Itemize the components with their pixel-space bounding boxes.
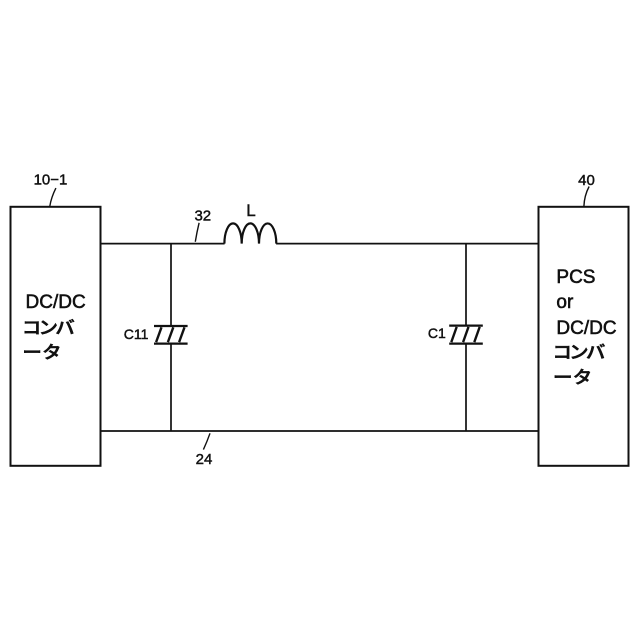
svg-text:L: L [246,201,255,220]
svg-text:C1: C1 [428,325,446,341]
svg-text:10−1: 10−1 [34,171,68,188]
svg-text:DC/DC: DC/DC [556,318,616,339]
svg-text:C11: C11 [124,326,149,342]
svg-text:32: 32 [194,208,211,225]
svg-text:or: or [556,292,574,313]
svg-text:PCS: PCS [556,267,595,288]
svg-text:24: 24 [196,451,213,468]
svg-text:40: 40 [578,172,595,189]
svg-text:DC/DC: DC/DC [26,292,86,313]
